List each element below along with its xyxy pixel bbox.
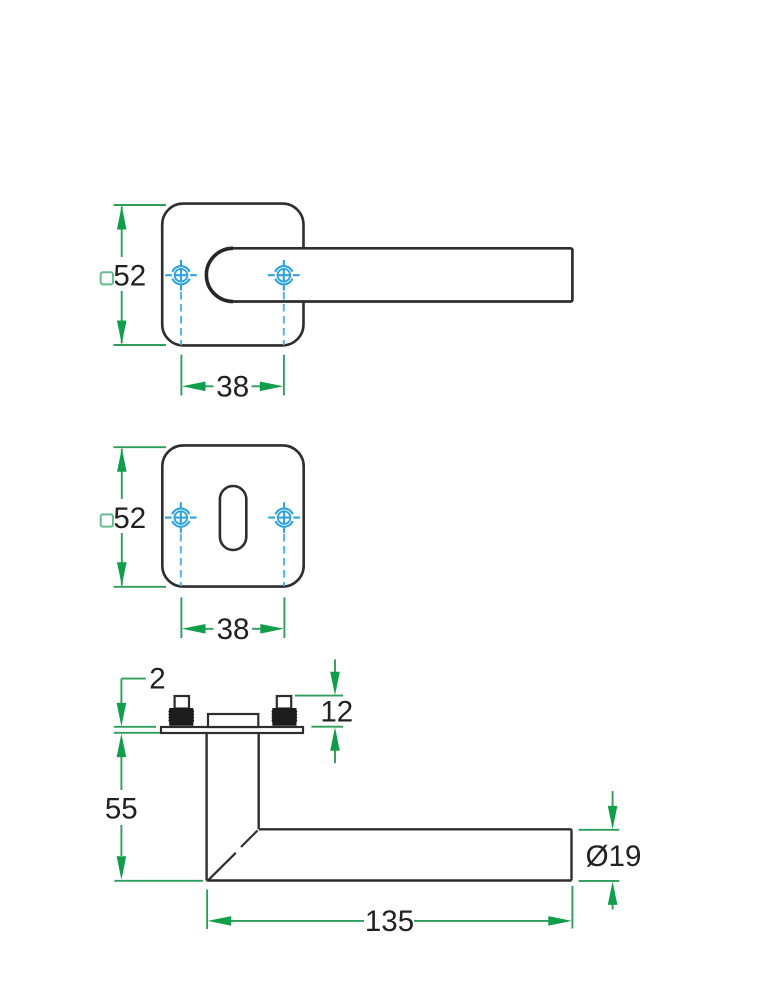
dimension 135 (grip length) xyxy=(207,886,572,929)
grip bottom edge xyxy=(207,879,572,881)
svg-text:12: 12 xyxy=(320,696,353,729)
dimension 52 (middle view, left) xyxy=(114,447,167,587)
centerline right screw (top view) xyxy=(283,292,285,345)
dimension 2 (plate thickness) xyxy=(114,679,160,733)
miter line segment 1 xyxy=(241,831,258,848)
square symbol of 52 (middle view) xyxy=(101,514,113,526)
svg-text:55: 55 xyxy=(105,792,138,825)
spindle hub (side view) xyxy=(208,714,258,727)
svg-text:2: 2 xyxy=(149,662,165,695)
miter line segment 2 xyxy=(208,853,236,880)
dimension 38 (middle view, bottom) xyxy=(181,597,284,638)
grip right end xyxy=(570,829,572,880)
lever bar (top view, stadium shape) xyxy=(206,248,572,301)
dimension 12 (screw height) xyxy=(295,659,343,763)
screw mark right (middle view) xyxy=(268,502,300,533)
square symbol of 52 (top view) xyxy=(101,272,113,284)
grip top edge xyxy=(259,828,572,830)
screw stud left xyxy=(175,696,189,709)
svg-text:52: 52 xyxy=(113,260,146,293)
centerline left screw (middle view) xyxy=(180,534,182,586)
rosette (top view, rounded square) xyxy=(162,204,303,346)
svg-text:135: 135 xyxy=(365,905,414,938)
svg-text:52: 52 xyxy=(113,502,146,535)
screw mark left (top view) xyxy=(165,260,197,291)
centerline left screw (top view) xyxy=(180,292,182,345)
lever bar end cap (thicker arc) xyxy=(206,248,233,301)
handle neck right edge xyxy=(258,734,260,829)
dimension 52 (top view, left) xyxy=(114,205,167,345)
rose plate (side view) xyxy=(161,727,303,733)
centerline right screw (middle view) xyxy=(283,534,285,586)
svg-text:Ø19: Ø19 xyxy=(586,840,642,873)
screw nut left (black) xyxy=(168,708,194,726)
svg-text:38: 38 xyxy=(217,613,250,646)
svg-text:38: 38 xyxy=(216,370,249,403)
dimension 55 (left vertical) xyxy=(114,756,203,881)
screw mark left (middle view) xyxy=(165,502,197,533)
screw mark right (top view) xyxy=(268,260,300,291)
handle neck left edge xyxy=(205,734,207,881)
key rosette (rounded square) xyxy=(162,445,303,586)
keyhole slot xyxy=(220,486,246,550)
dimension 38 (top view, bottom) xyxy=(181,355,284,396)
dimension D19 (grip diameter) xyxy=(579,791,620,909)
screw stud right xyxy=(277,696,291,709)
screw nut right (black) xyxy=(272,708,298,726)
